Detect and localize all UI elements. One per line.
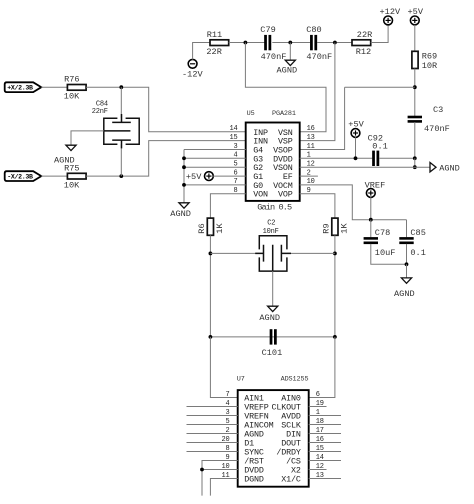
svg-text:AGND: AGND bbox=[394, 289, 415, 299]
power -12V bbox=[188, 59, 197, 68]
wire to AGND bbox=[406, 264, 408, 278]
U5 pin 4 (G3) bbox=[233, 152, 263, 165]
svg-text:10nF: 10nF bbox=[263, 228, 279, 236]
capacitor C80 470nF bbox=[310, 35, 313, 50]
junction C3/C92 bbox=[413, 156, 417, 160]
capacitor C84 22nF bbox=[92, 101, 139, 149]
wire to U7 pin 6 AIN0 bbox=[309, 337, 335, 398]
junction VSN rail bbox=[244, 41, 248, 45]
svg-text:470nF: 470nF bbox=[424, 124, 450, 134]
svg-text:DGND: DGND bbox=[244, 475, 264, 485]
svg-text:10uF: 10uF bbox=[375, 248, 396, 258]
wire VSN rail to U5 pin 16 bbox=[245, 43, 326, 132]
svg-text:C78: C78 bbox=[375, 228, 390, 238]
svg-text:C3: C3 bbox=[433, 105, 443, 115]
power +5V G1 bbox=[205, 172, 214, 181]
wire U7 right net row 7 bbox=[309, 460, 341, 462]
svg-text:0.1: 0.1 bbox=[372, 141, 387, 151]
ground AGND C84 bbox=[66, 145, 76, 150]
junction G2 bbox=[182, 165, 186, 169]
svg-text:U5: U5 bbox=[247, 110, 255, 118]
U5 pin 9 (VOP) bbox=[278, 187, 311, 200]
wire U7 left net row 2 bbox=[187, 415, 238, 417]
wire +5V to R69 bbox=[414, 25, 416, 52]
wire C2 centre to AGND bbox=[272, 271, 274, 306]
U7 pin 15 (/DRDY) bbox=[276, 445, 323, 458]
wire U7 left net row 3 bbox=[187, 424, 238, 426]
U7 pin 8 (SYNC) bbox=[225, 445, 263, 458]
junction VSOP feed bbox=[413, 85, 417, 89]
svg-text:C79: C79 bbox=[260, 25, 275, 35]
svg-text:+5V: +5V bbox=[186, 172, 202, 182]
U7 pin 10 (DVDD) bbox=[221, 463, 263, 476]
U7 pin 16 (DOUT) bbox=[281, 436, 323, 449]
wire U5 pin2 EF stub bbox=[300, 175, 318, 177]
wire +5V to DVDD wire bbox=[355, 137, 357, 158]
wire down to VSON wire bbox=[414, 158, 416, 167]
wire C84 centre to AGND bbox=[71, 131, 104, 145]
junction VSP rail bbox=[333, 41, 337, 45]
svg-text:R11: R11 bbox=[207, 30, 222, 40]
U7 pin 19 (CLKOUT) bbox=[272, 400, 324, 413]
U7 pin 2 (AGND) bbox=[225, 427, 263, 440]
U5 pin 15 (INN) bbox=[229, 134, 267, 147]
svg-text:ADS1255: ADS1255 bbox=[281, 375, 309, 383]
junction VOP/C2 bbox=[333, 252, 337, 256]
wire +X to C84 top bbox=[120, 87, 122, 118]
wire VSP rail to U5 pin 13 bbox=[300, 43, 335, 141]
U5 pin 6 (G1) bbox=[233, 169, 263, 182]
U5 pin 7 (G0) bbox=[233, 178, 263, 191]
wire riser to U5 pin 11 VSOP bbox=[300, 87, 345, 149]
wire to C78 top bbox=[370, 220, 372, 238]
junction -X / C84 bbox=[119, 174, 123, 178]
U5 pin 5 (G2) bbox=[233, 161, 263, 174]
U5 pin 3 (G4) bbox=[233, 143, 263, 156]
wire R6 to C101 left rail bbox=[209, 235, 211, 337]
U7 pin 20 (D1) bbox=[221, 436, 254, 449]
resistor R75 10K bbox=[67, 173, 86, 179]
junction +X / C84 bbox=[119, 85, 123, 89]
resistor R11 22R bbox=[210, 40, 229, 46]
svg-text:AGND: AGND bbox=[277, 65, 298, 75]
U5 pin 12 (VSON) bbox=[273, 161, 314, 174]
svg-text:15: 15 bbox=[229, 134, 237, 142]
junction VON/C2 bbox=[209, 252, 213, 256]
svg-text:-12V: -12V bbox=[182, 70, 203, 80]
junction C78/C85 bbox=[405, 262, 409, 266]
ground AGND gain pins bbox=[179, 203, 189, 208]
junction VREF bbox=[369, 218, 373, 222]
wire -X tag to R75 bbox=[41, 175, 67, 177]
U7 pin 12 (X2) bbox=[291, 463, 324, 476]
wire C79 to C80 bbox=[272, 42, 310, 44]
junction AGND tap bbox=[288, 41, 292, 45]
wire R9 to C101 right rail bbox=[334, 235, 336, 337]
wire C85 bottom bbox=[406, 244, 408, 264]
svg-text:+X/2.3B: +X/2.3B bbox=[7, 85, 33, 92]
power +12V bbox=[384, 16, 393, 25]
svg-text:VREF: VREF bbox=[365, 180, 386, 190]
wire C84 bottom to -X bbox=[120, 144, 122, 176]
wire G pins to AGND bbox=[183, 150, 185, 203]
resistor R76 10K bbox=[67, 85, 86, 91]
wire +X tag to R76 bbox=[41, 86, 67, 88]
wire U7 right net row 3 bbox=[309, 424, 341, 426]
wire U7 left net row 1 bbox=[187, 406, 238, 408]
svg-text:X1/C: X1/C bbox=[281, 475, 301, 485]
wire U5 pin7 G0 bbox=[184, 184, 246, 186]
U5 pin 14 (INP) bbox=[229, 125, 267, 138]
net tag +X/2.3B bbox=[5, 82, 42, 92]
svg-text:AGND: AGND bbox=[170, 209, 191, 219]
svg-text:VON: VON bbox=[253, 190, 268, 200]
U5 pin 11 (VSOP) bbox=[273, 143, 314, 156]
wire C3 to AGND node bbox=[414, 122, 416, 158]
svg-text:22nF: 22nF bbox=[92, 108, 108, 116]
U5 pin 16 (VSN) bbox=[278, 125, 315, 138]
svg-text:AGND: AGND bbox=[54, 155, 75, 165]
svg-text:C101: C101 bbox=[262, 348, 283, 358]
U7 pin 4 (VREFP) bbox=[225, 400, 268, 413]
U7 pin 9 (/RST) bbox=[225, 454, 263, 467]
svg-text:C80: C80 bbox=[306, 25, 321, 35]
capacitor C85 0.1 bbox=[399, 237, 413, 240]
svg-text:AGND: AGND bbox=[439, 163, 460, 173]
U5 pin 2 (EF) bbox=[283, 169, 311, 182]
svg-text:16: 16 bbox=[307, 125, 315, 133]
U5 pin 1 (DVDD) bbox=[273, 152, 310, 165]
wire R75 to U5 pin 15 INN bbox=[86, 141, 246, 177]
svg-text:R9: R9 bbox=[322, 223, 332, 233]
capacitor C101 bbox=[270, 329, 273, 344]
svg-text:1K: 1K bbox=[215, 223, 225, 234]
svg-text:7: 7 bbox=[225, 391, 229, 399]
svg-text:U7: U7 bbox=[237, 375, 245, 383]
wire differential rail C101 bbox=[210, 336, 335, 338]
svg-text:R12: R12 bbox=[356, 47, 371, 57]
wire C80 to R12 bbox=[317, 42, 352, 44]
U7 pin 6 (AIN0) bbox=[281, 391, 319, 404]
wire VREF to node bbox=[370, 197, 372, 220]
wire U7 right net row 2 bbox=[309, 415, 341, 417]
U5 pin 8 (VON) bbox=[233, 187, 267, 200]
svg-text:R76: R76 bbox=[64, 75, 79, 85]
svg-text:R6: R6 bbox=[197, 223, 207, 233]
capacitor C2 10nF bbox=[255, 220, 291, 272]
wire U5 pin5 G2 bbox=[184, 166, 246, 168]
svg-text:-X/2.3B: -X/2.3B bbox=[7, 174, 33, 181]
junction VSON/AGND bbox=[413, 165, 417, 169]
net tag -X/2.3B bbox=[5, 171, 42, 181]
svg-text:13: 13 bbox=[307, 134, 315, 142]
U7 pin 1 (AVDD) bbox=[281, 409, 319, 422]
U7 pin 5 (AINCOM) bbox=[225, 418, 273, 431]
wire U5 pin12 VSON to AGND bbox=[300, 166, 430, 168]
wire to C85 top bbox=[406, 220, 408, 238]
svg-text:10K: 10K bbox=[64, 92, 80, 102]
ground AGND C85 bbox=[401, 278, 411, 283]
svg-text:1K: 1K bbox=[339, 223, 349, 234]
svg-text:470nF: 470nF bbox=[306, 52, 332, 62]
wire U5 pin4 G3 bbox=[184, 157, 246, 159]
wire U7 right net row 6 bbox=[309, 451, 341, 453]
wire U7 right net row 5 bbox=[309, 442, 341, 444]
svg-text:AGND: AGND bbox=[259, 313, 280, 323]
svg-text:VOP: VOP bbox=[278, 190, 293, 200]
wire U7 pin9 /RST down bbox=[202, 461, 238, 496]
junction RST/DVDD bbox=[200, 468, 204, 472]
wire U5 pin9 VOP to R9 bbox=[300, 194, 335, 218]
wire C92 to AGND node bbox=[379, 157, 415, 159]
wire C78 bottom rail bbox=[371, 244, 407, 264]
svg-text:10K: 10K bbox=[64, 181, 80, 191]
U5 pin 10 (VOCM) bbox=[273, 178, 314, 191]
svg-text:0.1: 0.1 bbox=[410, 248, 425, 258]
power +5V DVDD bbox=[351, 129, 360, 138]
wire C2 right to VOP rail bbox=[287, 252, 335, 254]
wire U7 left net row 6 bbox=[187, 451, 238, 453]
wire U7 left net row 5 bbox=[187, 442, 238, 444]
U7 pin 13 (X1/C) bbox=[281, 472, 323, 485]
U7 pin 18 (SCLK) bbox=[281, 418, 323, 431]
ground AGND right bbox=[430, 163, 436, 172]
wire U7 pin19 stub bbox=[309, 406, 327, 408]
junction G3 bbox=[182, 156, 186, 160]
wire R11 to C79 bbox=[229, 42, 266, 44]
junction G0 bbox=[182, 183, 186, 187]
ground AGND C2 bbox=[268, 306, 278, 311]
wire U7 left net row 4 bbox=[187, 433, 238, 435]
U7 pin 3 (VREFN) bbox=[225, 409, 268, 422]
power +5V bbox=[410, 16, 419, 25]
resistor R69 10R bbox=[412, 51, 418, 68]
wire R76 to U5 pin 14 INP bbox=[86, 87, 246, 132]
ADC U7 ADS1255 bbox=[237, 375, 309, 486]
wire down to AGND bbox=[289, 43, 291, 61]
wire U7 pin11 DGND down bbox=[210, 479, 237, 496]
junction C101 right bbox=[333, 335, 337, 339]
ground AGND top bbox=[285, 60, 295, 65]
U5 pin 13 (VSP) bbox=[278, 134, 315, 147]
U7 pin 17 (DIN) bbox=[286, 427, 324, 440]
svg-text:C85: C85 bbox=[410, 228, 425, 238]
svg-text:22R: 22R bbox=[357, 30, 372, 40]
resistor R9 1K bbox=[332, 218, 338, 235]
svg-text:11: 11 bbox=[307, 143, 315, 151]
wire U5 pin3 G4 bbox=[184, 149, 246, 151]
wire to U7 pin 7 AIN1 bbox=[210, 337, 237, 398]
wire U7 pin10 DVDD bbox=[202, 469, 238, 471]
wire R69 to C3 bbox=[414, 69, 416, 117]
junction +5V/DVDD bbox=[354, 156, 358, 160]
U7 pin 11 (DGND) bbox=[221, 472, 263, 485]
wire R69 junction to VSOP riser bbox=[345, 86, 415, 88]
U7 pin 7 (AIN1) bbox=[225, 391, 263, 404]
svg-text:6: 6 bbox=[316, 391, 320, 399]
svg-text:14: 14 bbox=[229, 125, 237, 133]
capacitor C92 0.1 bbox=[372, 151, 375, 166]
wire U7 right net row 4 bbox=[309, 433, 341, 435]
svg-text:470nF: 470nF bbox=[261, 52, 287, 62]
capacitor C79 470nF bbox=[264, 35, 267, 50]
resistor R12 22R bbox=[352, 40, 371, 46]
svg-text:C2: C2 bbox=[267, 220, 275, 228]
resistor R6 1K bbox=[207, 218, 213, 235]
wire U5 pin10 VOCM to VREF node bbox=[300, 185, 407, 220]
op-amp U5 PGA281 bbox=[246, 110, 300, 213]
U7 pin 14 (/CS) bbox=[286, 454, 324, 467]
capacitor C78 10uF bbox=[364, 237, 378, 240]
capacitor C3 470nF bbox=[408, 116, 422, 119]
junction C101 left bbox=[209, 335, 213, 339]
svg-text:Gain 0.5: Gain 0.5 bbox=[257, 203, 292, 213]
wire U5 pin8 VON to R6 bbox=[210, 194, 245, 218]
wire U7 right net row 9 bbox=[309, 478, 341, 480]
wire +5V to U5 pin6 G1 bbox=[213, 175, 246, 177]
wire -12V to R11 bbox=[193, 43, 210, 60]
wire to C2 left bbox=[210, 252, 259, 254]
wire U7 pin12 stub bbox=[309, 469, 327, 471]
power VREF bbox=[366, 189, 375, 198]
svg-text:22R: 22R bbox=[206, 47, 221, 57]
wire U5 pin1 DVDD to C92 bbox=[300, 157, 373, 159]
svg-text:PGA281: PGA281 bbox=[272, 110, 296, 118]
svg-text:10R: 10R bbox=[422, 61, 437, 71]
wire R12 to +12V bbox=[371, 25, 388, 43]
